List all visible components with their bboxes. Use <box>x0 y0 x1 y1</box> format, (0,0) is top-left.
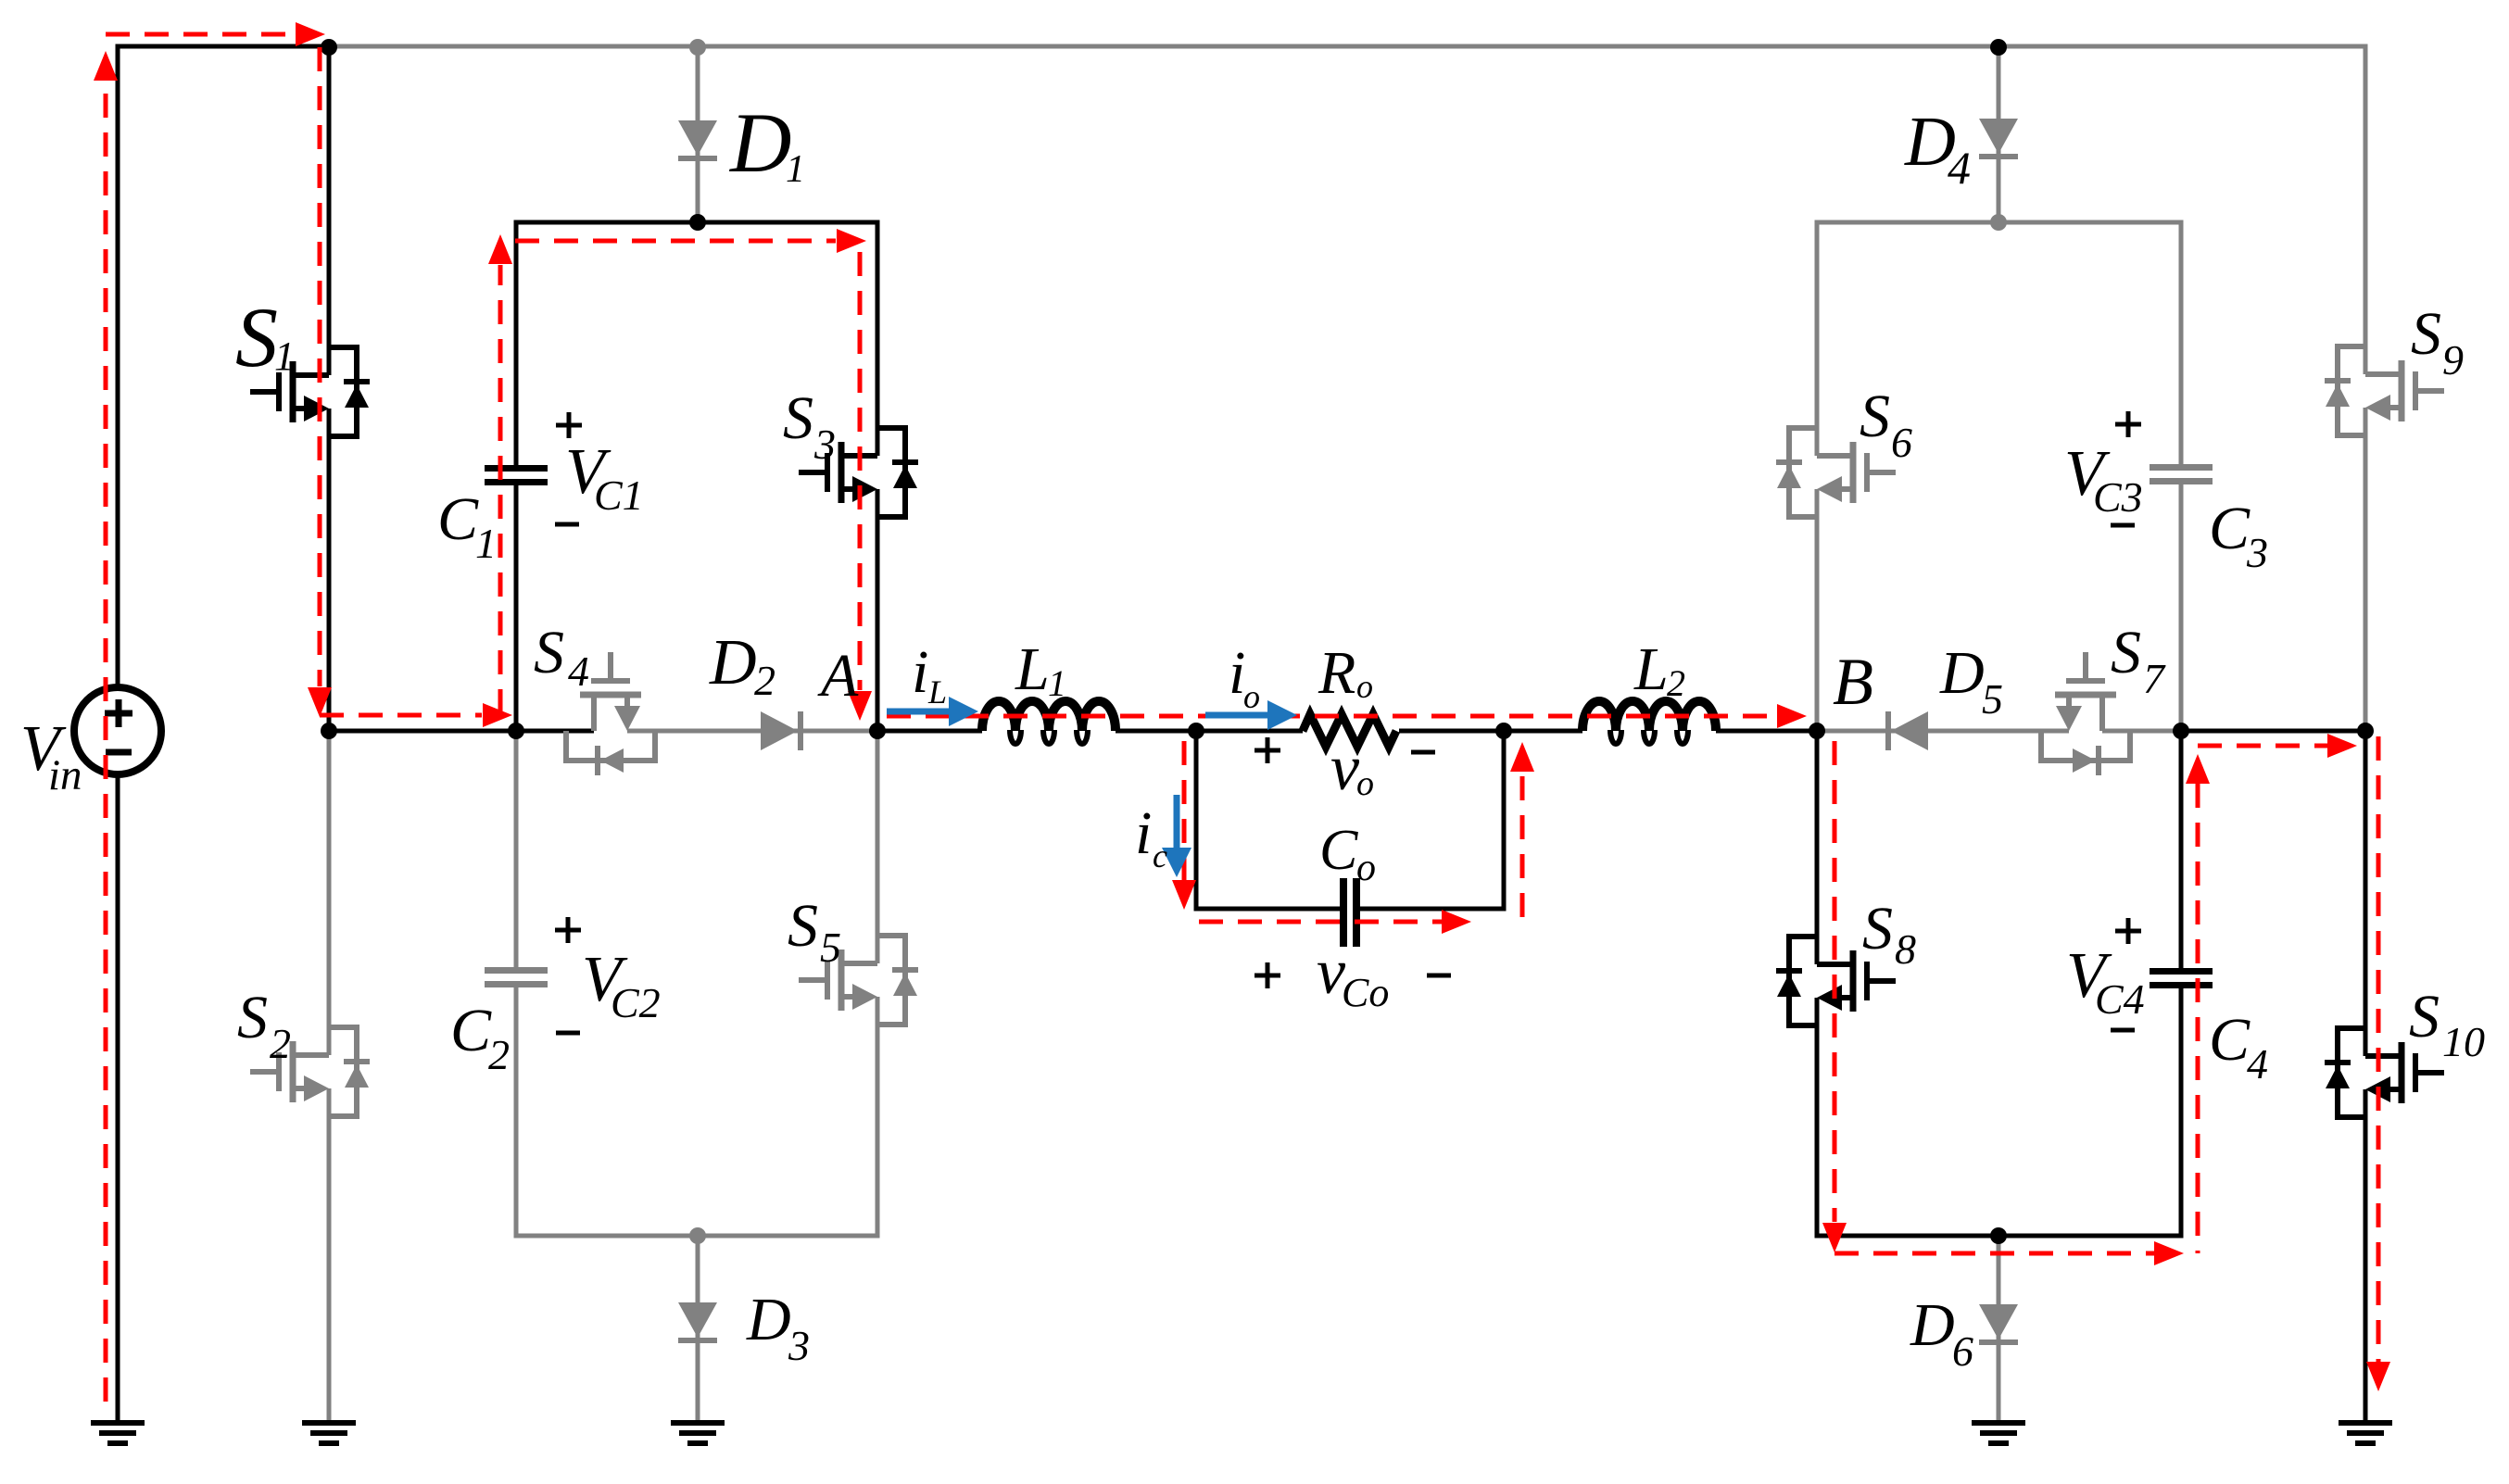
wire top rail gray <box>329 44 2368 49</box>
wire S6 branch lower gray <box>1815 489 1820 731</box>
wire S6 branch upper gray <box>1815 220 1820 457</box>
wire Co bottom right <box>1360 907 1507 912</box>
svg-text:5: 5 <box>1982 675 2003 723</box>
diode D6 <box>1979 1304 2018 1345</box>
label D2 <box>709 627 775 704</box>
label io <box>1229 639 1260 715</box>
current path arrow into node B <box>1777 704 1807 728</box>
wire Co left leg <box>1194 729 1199 912</box>
current path: Co right dashed up <box>1520 776 1525 922</box>
transistor S7 <box>2041 652 2130 775</box>
label S4 <box>534 619 589 695</box>
wire mid-right black <box>2181 729 2365 734</box>
svg-text:C2: C2 <box>611 979 661 1026</box>
svg-text:5: 5 <box>820 924 841 971</box>
svg-text:Co: Co <box>1342 970 1389 1015</box>
current arrow iL <box>887 697 978 726</box>
capacitor C3 <box>2150 464 2213 484</box>
svg-text:1: 1 <box>786 148 805 191</box>
wire mid rail gray S4-D2-A <box>627 729 877 734</box>
wire right rail upper gray <box>2364 46 2368 374</box>
current path arrow up at C1 top <box>488 234 512 264</box>
svg-text:1: 1 <box>475 520 497 567</box>
wire S10 branch lower <box>2364 1089 2368 1423</box>
label Co <box>1319 819 1376 889</box>
diode D3 <box>678 1302 717 1343</box>
svg-text:D: D <box>1910 1291 1955 1359</box>
label C4 <box>2209 1006 2268 1088</box>
svg-text:S: S <box>783 384 813 452</box>
wire D6 branch gray <box>1997 1236 2001 1423</box>
current path arrow right in Co loop <box>1442 910 1471 934</box>
current path arrow down to mid rail <box>308 687 332 717</box>
svg-text:i: i <box>1135 799 1152 867</box>
wire S3 branch upper <box>876 220 880 457</box>
wire S2 branch lower gray <box>327 1088 332 1423</box>
wire C1 branch lower <box>514 485 519 731</box>
svg-text:S: S <box>2111 619 2141 686</box>
svg-text:S: S <box>788 892 818 960</box>
svg-text:2: 2 <box>754 657 775 704</box>
svg-text:10: 10 <box>2442 1018 2485 1065</box>
transistor S9 <box>2325 346 2444 435</box>
label iL <box>912 638 947 711</box>
svg-text:S: S <box>1860 383 1890 450</box>
svg-text:3: 3 <box>813 421 836 468</box>
label vo <box>1330 733 1374 804</box>
junction C4/mid rail <box>2173 723 2189 739</box>
transistor S1 <box>250 347 370 436</box>
current path arrow into C1 branch <box>483 703 512 727</box>
label VC3 <box>2064 438 2143 521</box>
polarity - (vo) <box>1411 750 1435 755</box>
svg-text:6: 6 <box>1891 419 1912 466</box>
wire node A to L1 <box>877 729 982 734</box>
capacitor C2 <box>485 967 548 987</box>
svg-text:S: S <box>534 619 564 686</box>
wire S8 branch lower <box>1815 998 1820 1239</box>
polarity + (C2) <box>555 917 581 943</box>
svg-text:C: C <box>2209 495 2251 562</box>
current path: C1 branch dashed up <box>498 265 503 713</box>
wire C1 box top <box>514 220 880 225</box>
svg-text:C: C <box>437 485 479 553</box>
current path arrow up out of Co loop <box>1510 742 1534 772</box>
resistor Ro <box>1303 714 1396 747</box>
current path: mid rail dashed to C1 <box>320 713 482 718</box>
svg-text:C3: C3 <box>2093 473 2143 521</box>
ground (S2) <box>302 1420 356 1446</box>
wire S10 branch upper <box>2364 731 2368 1056</box>
svg-text:D: D <box>728 95 791 190</box>
junction D1/top rail <box>689 39 706 56</box>
label C2 <box>450 997 510 1078</box>
label S3 <box>783 384 836 468</box>
wire top-left rail <box>116 44 330 49</box>
current path arrow up at C4 top <box>2186 754 2210 784</box>
polarity - (C3) <box>2111 523 2135 528</box>
label D6 <box>1910 1291 1973 1375</box>
wire Co-left node to Ro <box>1196 729 1303 734</box>
wire C4 branch upper <box>2179 729 2184 969</box>
svg-text:c: c <box>1153 837 1167 874</box>
wire C2 branch upper gray <box>514 731 519 967</box>
polarity + (vCo) <box>1254 962 1280 988</box>
svg-text:C: C <box>1319 819 1358 882</box>
label D5 <box>1939 639 2003 723</box>
node A <box>869 723 886 739</box>
junction D4/right-box top <box>1990 214 2007 231</box>
current path arrow into S1 node <box>296 22 325 46</box>
label ic <box>1135 799 1167 874</box>
current path arrow to right rail <box>2327 734 2357 758</box>
current path: mid-right dashed <box>2198 744 2327 748</box>
svg-text:in: in <box>48 751 82 799</box>
junction S1/mid rail <box>321 723 337 739</box>
polarity + (C3) <box>2115 411 2141 437</box>
svg-text:S: S <box>2409 983 2440 1050</box>
wire S5 branch lower gray <box>876 997 880 1239</box>
svg-text:1: 1 <box>1048 662 1066 704</box>
svg-text:4: 4 <box>2247 1040 2268 1088</box>
transistor S4 <box>566 652 655 775</box>
capacitor Co <box>1340 878 1360 947</box>
svg-text:2: 2 <box>488 1031 510 1078</box>
svg-text:7: 7 <box>2143 655 2166 702</box>
junction top-left (S1/top rail) <box>321 39 337 56</box>
polarity + (C4) <box>2115 918 2141 944</box>
svg-text:o: o <box>1356 668 1373 705</box>
svg-text:L: L <box>927 673 947 711</box>
transistor S2 <box>250 1027 370 1116</box>
wire left rail lower (Vin bottom lead) <box>116 773 120 1423</box>
svg-text:8: 8 <box>1895 925 1916 973</box>
svg-text:L: L <box>1015 635 1050 703</box>
voltage source Vin <box>74 687 161 774</box>
svg-text:6: 6 <box>1952 1327 1973 1375</box>
current path: right rail dashed down <box>2377 736 2381 1362</box>
current path arrow to C4 bottom <box>2154 1241 2184 1265</box>
label VC1 <box>565 436 644 519</box>
wire C3 branch upper gray <box>2179 220 2184 465</box>
diode D2 <box>761 711 803 750</box>
wire C1 branch upper <box>514 222 519 465</box>
svg-text:S: S <box>2411 300 2441 368</box>
label S1 <box>235 290 295 384</box>
current path: C4 branch dashed up <box>2196 784 2200 1253</box>
polarity - (C4) <box>2111 1028 2135 1033</box>
diode D5 <box>1885 711 1928 750</box>
wire S3 branch lower <box>876 489 880 731</box>
svg-text:S: S <box>235 290 278 384</box>
transistor S3 <box>799 428 918 517</box>
current path arrow at S3 top <box>837 229 866 253</box>
wire S1 branch upper <box>327 44 332 376</box>
inductor L1 <box>982 701 1116 744</box>
svg-text:4: 4 <box>568 648 589 695</box>
svg-text:S: S <box>237 984 268 1051</box>
wire Co bottom left <box>1194 907 1341 912</box>
transistor S10 <box>2325 1028 2444 1117</box>
current path: Co left dashed down <box>1182 741 1187 880</box>
wire bottom-right box <box>1815 1234 2184 1239</box>
svg-text:R: R <box>1318 639 1355 707</box>
capacitor C4 <box>2150 968 2213 988</box>
svg-text:S: S <box>1862 895 1893 962</box>
svg-text:o: o <box>1356 847 1376 889</box>
junction D1/C1-box top <box>689 214 706 231</box>
label C1 <box>437 485 497 567</box>
junction D3/bottom-left box <box>689 1227 706 1244</box>
svg-text:D: D <box>746 1286 791 1353</box>
label vCo <box>1317 937 1389 1015</box>
label D3 <box>746 1286 810 1369</box>
svg-text:4: 4 <box>1948 142 1971 194</box>
current path arrow down into Co loop <box>1172 880 1196 910</box>
svg-text:D: D <box>709 627 757 698</box>
wire bottom-left box gray <box>514 1234 880 1239</box>
current path: left rail dashed <box>104 82 108 1402</box>
label S9 <box>2411 300 2464 384</box>
svg-text:D: D <box>1939 639 1985 707</box>
svg-text:o: o <box>1243 678 1260 715</box>
junction D6/bottom-right box <box>1990 1227 2007 1244</box>
current path: S8 branch dashed down <box>1833 741 1837 1222</box>
label S8 <box>1862 895 1916 973</box>
label S2 <box>237 984 291 1067</box>
wire Co-right node to L2 <box>1504 729 1582 734</box>
wire C2 branch lower gray <box>514 987 519 1239</box>
svg-text:3: 3 <box>2246 529 2268 576</box>
current path: C1 box top dashed <box>515 239 836 244</box>
svg-text:C: C <box>2209 1006 2251 1074</box>
current path: S1 branch dashed <box>318 47 322 686</box>
wire right box top gray <box>1815 220 2184 225</box>
wire mid rail left black <box>329 729 594 734</box>
wire left rail upper (Vin top lead) <box>116 44 120 690</box>
svg-text:B: B <box>1833 645 1873 719</box>
wire S1 branch lower <box>327 409 332 731</box>
wire C4 branch lower <box>2179 988 2184 1239</box>
wire D4 branch gray <box>1997 46 2001 222</box>
junction Co-left/mid rail <box>1188 723 1204 739</box>
svg-text:3: 3 <box>788 1322 810 1369</box>
wire C3 branch lower gray <box>2179 484 2184 731</box>
svg-text:1: 1 <box>274 333 295 379</box>
wire D3 branch gray <box>696 1236 700 1423</box>
label Vin <box>20 713 82 799</box>
current path: top dashed <box>106 32 295 37</box>
current path arrow down at S8 bottom <box>1822 1223 1847 1252</box>
junction C1/mid rail <box>508 723 524 739</box>
label S5 <box>788 892 841 971</box>
polarity + (C1) <box>556 412 582 438</box>
node B <box>1809 723 1825 739</box>
wire S8 branch upper <box>1815 731 1820 964</box>
svg-text:C4: C4 <box>2095 975 2145 1023</box>
current arrow ic <box>1162 795 1191 877</box>
transistor S8 <box>1776 937 1896 1025</box>
current path: bottom-right box dashed <box>1834 1251 2154 1256</box>
svg-text:C: C <box>450 997 492 1064</box>
inductor L2 <box>1582 701 1716 744</box>
wire S9 branch lower gray <box>2364 408 2368 731</box>
label D4 <box>1904 103 1971 194</box>
current path arrow up at Vin top <box>94 51 118 81</box>
svg-text:2: 2 <box>1667 662 1685 704</box>
wire S7 to C4 node gray <box>2102 729 2181 734</box>
junction right rail/mid <box>2357 723 2374 739</box>
diode D1 <box>678 120 717 161</box>
label S7 <box>2111 619 2166 702</box>
ground (S10) <box>2339 1420 2392 1446</box>
polarity - (vCo) <box>1427 974 1451 978</box>
label S6 <box>1860 383 1912 466</box>
label L2 <box>1633 635 1685 704</box>
wire S5 branch upper gray <box>876 731 880 963</box>
transistor S5 <box>799 936 918 1025</box>
wire Co right leg <box>1502 729 1507 912</box>
polarity - (C2) <box>556 1031 580 1036</box>
svg-text:9: 9 <box>2442 336 2464 384</box>
current path arrow down to ground <box>2366 1362 2390 1391</box>
junction D4/top rail <box>1990 39 2007 56</box>
svg-text:A: A <box>817 642 859 710</box>
wire S2 branch upper gray <box>327 731 332 1055</box>
transistor S6 <box>1776 428 1896 517</box>
wire L1 to Co-left node <box>1116 729 1196 734</box>
polarity + (vo) <box>1254 737 1280 763</box>
capacitor C1 <box>485 465 548 485</box>
wire Ro to Co-right node <box>1399 729 1504 734</box>
current path: Co bottom dashed <box>1199 920 1442 924</box>
label L1 <box>1015 635 1066 704</box>
ground (D6) <box>1972 1420 2025 1446</box>
label VC4 <box>2066 940 2145 1023</box>
current path: S3 branch dashed down <box>858 252 863 690</box>
junction Co-right/mid rail <box>1495 723 1512 739</box>
svg-text:o: o <box>1356 764 1374 803</box>
svg-text:2: 2 <box>270 1020 291 1067</box>
svg-text:L: L <box>1633 635 1669 703</box>
current arrow io <box>1205 700 1297 730</box>
label C3 <box>2209 495 2268 576</box>
polarity - (C1) <box>555 522 579 527</box>
current path: A to B dashed <box>887 714 1776 719</box>
label D1 <box>728 95 805 191</box>
label VC2 <box>582 944 661 1026</box>
wire D1 branch <box>696 46 700 222</box>
wire L2 to node B <box>1716 729 1817 734</box>
diode D4 <box>1979 119 2018 159</box>
svg-text:i: i <box>912 638 928 706</box>
wire B to D5 gray <box>1817 729 2069 734</box>
svg-text:C1: C1 <box>594 472 644 519</box>
label S10 <box>2409 983 2485 1065</box>
label Ro <box>1318 639 1373 707</box>
current path arrow down to node A <box>848 691 872 721</box>
ground (D3) <box>671 1420 725 1446</box>
ground (Vin) <box>91 1420 145 1446</box>
